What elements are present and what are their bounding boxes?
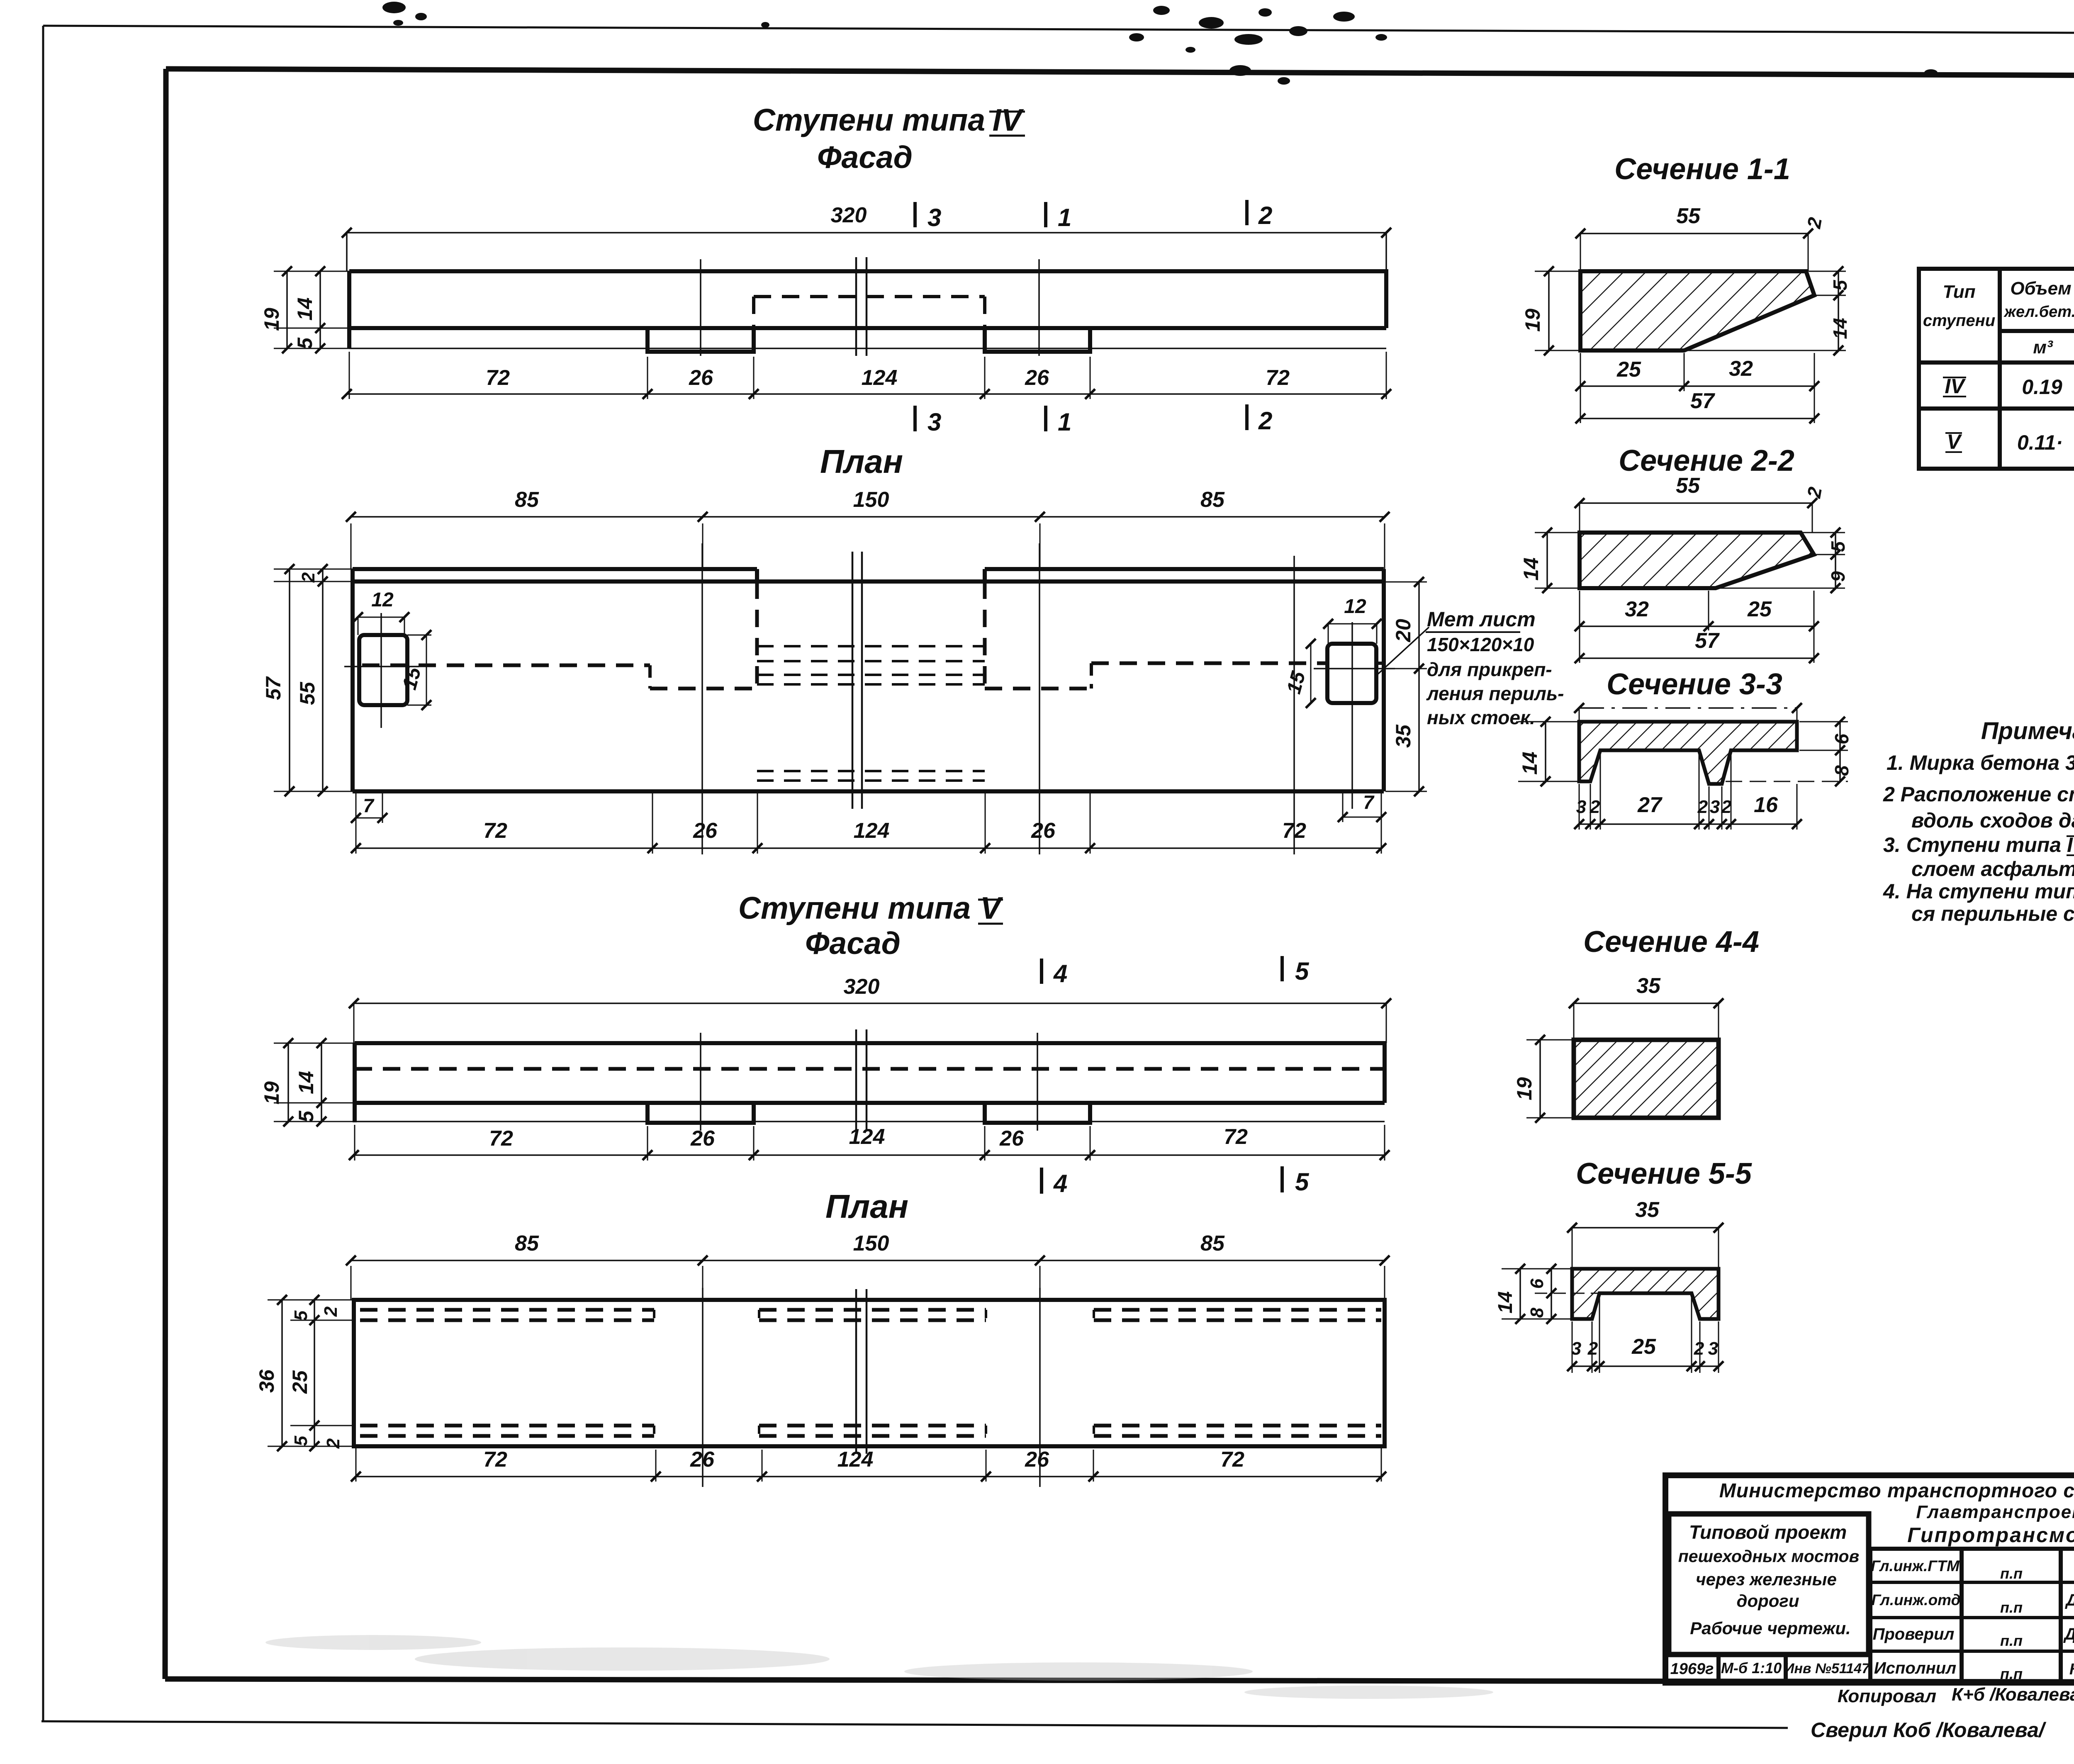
facade V: hidden dashed line [355,1067,1385,1071]
facade V: outline [355,1043,1385,1123]
section 3-3: right dims 6 8 [1799,721,1848,723]
svg-text:2: 2 [1258,407,1272,435]
svg-text:п.п: п.п [2000,1665,2023,1682]
svg-text:3: 3 [927,408,941,436]
facade IV: left dims 19 14 5 [274,271,351,272]
title block: middle signature table [1868,1549,1872,1683]
svg-text:5: 5 [291,1436,311,1446]
svg-text:3: 3 [1571,1338,1581,1359]
svg-text:Объем: Объем [2010,278,2071,299]
plan V: dashed hidden lines bottom [360,1424,654,1428]
svg-text:85: 85 [515,488,539,512]
svg-text:57: 57 [262,676,285,700]
svg-text:для прикреп-: для прикреп- [1427,659,1552,680]
svg-text:5: 5 [1829,280,1851,291]
svg-text:8: 8 [1527,1307,1547,1318]
facade IV: section marks top 3 1 2 [913,202,917,227]
svg-text:72: 72 [1224,1125,1248,1149]
plan IV: hidden step outline dashed left [362,664,650,667]
svg-text:п.п: п.п [2000,1565,2023,1582]
svg-text:55: 55 [1676,204,1701,228]
facade V: section marks top 4 5 [1040,959,1043,984]
svg-text:7: 7 [363,795,375,816]
section 2-2: right dims 5 9 [1802,532,1845,533]
section 1-1: bottom dims 25 32 [1580,353,1581,423]
svg-text:14: 14 [293,297,316,321]
svg-text:36: 36 [255,1369,278,1393]
svg-text:124: 124 [849,1125,885,1149]
svg-text:5: 5 [293,337,316,349]
svg-text:20: 20 [1392,619,1415,642]
plan V: top dimension line 85 150 85 [351,1266,352,1300]
svg-text:25: 25 [288,1370,312,1394]
svg-text:150: 150 [853,1231,889,1255]
svg-text:124: 124 [837,1448,874,1472]
svg-text:Типовой проект: Типовой проект [1689,1521,1847,1543]
section 2-2: bottom dim 57 [1580,657,1814,659]
svg-text:26: 26 [689,366,713,390]
section 2-2: dim 55 and 2 [1580,502,1812,504]
svg-text:25: 25 [1616,358,1641,382]
svg-text:5: 5 [295,1110,318,1122]
title block outer box [1665,1475,2074,1683]
svg-text:3: 3 [1576,797,1586,817]
svg-text:2: 2 [1697,797,1708,817]
facade IV: hidden dashed rectangle (raised middle) [754,295,985,298]
svg-text:Дорофеев: Дорофеев [2063,1625,2074,1643]
svg-text:26: 26 [1025,366,1049,390]
svg-text:9: 9 [1827,571,1849,582]
svg-text:72: 72 [1266,366,1290,390]
svg-text:124: 124 [854,819,890,843]
plan IV: left plate dim 12 [358,617,404,618]
section 5-5: hatched profile [1572,1269,1719,1319]
svg-text:Примечания:: Примечания: [1981,718,2074,745]
svg-text:85: 85 [1200,1231,1225,1255]
svg-text:2: 2 [298,572,319,583]
svg-text:через железные: через железные [1696,1569,1837,1589]
plan IV: met list leader line [1378,627,1429,674]
facade IV: outline [349,271,1386,352]
svg-text:6: 6 [1831,734,1852,745]
svg-text:жел.бет.: жел.бет. [2003,303,2074,321]
svg-text:5: 5 [1827,541,1849,552]
svg-text:320: 320 [844,975,880,999]
svg-text:12: 12 [371,589,394,611]
svg-text:25: 25 [1747,597,1772,621]
facade IV: top dimension line 320 [347,232,1386,234]
svg-text:26: 26 [1031,819,1056,843]
facade V: thin bottom line [355,1121,1385,1122]
svg-text:6: 6 [1527,1278,1547,1289]
facade IV: bottom dimension line 72 26 124 26 72 [349,352,350,399]
title block: left bottom cells [1665,1652,1869,1657]
plan IV: left metal plate [359,635,407,705]
plan V: axis lines [702,1288,704,1487]
section 3-3: bottom dims 3 2 27 2 3 2 16 [1579,784,1580,830]
section 3-3: left dim 14 [1518,721,1580,723]
svg-text:Рабочие чертежи.: Рабочие чертежи. [1690,1618,1850,1638]
facade V: section marks bottom 4 5 [1040,1168,1043,1194]
svg-text:57: 57 [1695,629,1720,653]
svg-text:25: 25 [1631,1335,1656,1359]
plan IV: outline [353,569,1384,791]
svg-text:Фасад: Фасад [817,140,913,175]
svg-text:1: 1 [1058,204,1071,231]
plan IV: right plate dim 12 [1328,623,1377,625]
svg-text:План: План [825,1188,908,1225]
svg-text:124: 124 [862,366,898,390]
plan IV: top dimension line 85 150 85 [351,523,352,569]
svg-text:Инв №51147: Инв №51147 [1784,1661,1870,1676]
svg-text:п.п: п.п [2000,1599,2023,1616]
svg-text:М-б 1:10: М-б 1:10 [1721,1659,1782,1676]
svg-text:85: 85 [515,1231,539,1255]
facade IV: break lines [855,257,857,356]
section 2-2: hatched profile [1580,533,1814,588]
svg-text:2 Расположение ступеней по: 2 Расположение ступеней по типам [1883,783,2074,806]
section 3-3: hatched profile [1579,722,1797,784]
svg-text:2: 2 [323,1438,343,1449]
svg-text:35: 35 [1636,974,1661,998]
svg-text:Ступени типа: Ступени типа [738,891,971,925]
svg-text:Сечение 3-3: Сечение 3-3 [1607,668,1782,701]
svg-text:26: 26 [693,819,718,843]
svg-text:8: 8 [1831,765,1852,776]
section 5-5: dim 35 [1572,1227,1719,1229]
plan IV: break lines [852,552,854,809]
svg-text:ных стоек.: ных стоек. [1427,707,1535,728]
facade V: left dims 19 14 5 [274,1043,356,1044]
svg-text:Министерство транспортного: Министерство транспортного строительства… [1719,1480,2074,1502]
svg-text:2: 2 [1694,1338,1704,1359]
scan noise specks top [382,2,2074,179]
svg-text:320: 320 [831,203,867,227]
svg-text:19: 19 [260,308,283,331]
table: weights [1919,269,2074,469]
svg-text:19: 19 [260,1081,283,1105]
facade V: break lines [855,1029,857,1131]
plan V: left dims 36 25 5 2 5 2 [268,1299,356,1301]
section 5-5: bottom dims 3 2 25 2 3 [1572,1321,1573,1373]
svg-text:4. На ступени типа IV уста: 4. На ступени типа IV устанавливают- [1883,880,2074,903]
svg-text:55: 55 [296,681,319,705]
svg-text:Проверил: Проверил [1873,1625,1955,1643]
svg-text:150×120×10: 150×120×10 [1427,634,1534,655]
plan IV: hidden step outline dashed right [1091,662,1326,665]
facade IV: thin bottom layer line [349,348,1386,349]
section 3-3: top reference line [1579,707,1797,709]
svg-text:72: 72 [486,366,510,390]
svg-text:72: 72 [483,1448,507,1472]
svg-text:14: 14 [1829,318,1851,339]
svg-text:26: 26 [690,1448,715,1472]
svg-text:пешеходных мостов: пешеходных мостов [1678,1547,1860,1566]
svg-text:7: 7 [1363,791,1375,813]
plan IV: right dims 20 35 [1385,582,1427,583]
svg-text:3: 3 [1710,797,1720,817]
svg-text:Гл.инж.отд: Гл.инж.отд [1872,1591,1961,1608]
svg-text:ления периль-: ления периль- [1426,683,1564,704]
svg-text:Гл.инж.ГТМ: Гл.инж.ГТМ [1871,1557,1960,1574]
svg-text:Сечение 4-4: Сечение 4-4 [1583,925,1759,959]
plan V: bottom dimension line [355,1448,357,1482]
svg-text:26: 26 [690,1127,715,1151]
svg-text:Сечение 1-1: Сечение 1-1 [1614,153,1790,186]
section 4-4: left dim 19 [1526,1039,1575,1041]
plan IV: right plate dim 15 [1310,644,1312,703]
section 1-1: hatched profile [1580,271,1814,350]
svg-text:К+б /Ковалева/: К+б /Ковалева/ [1952,1684,2074,1705]
svg-text:ся перильные стойки.: ся перильные стойки. [1911,902,2074,925]
svg-text:Фасад: Фасад [805,926,901,961]
svg-text:72: 72 [483,819,507,843]
svg-text:1. Мирка бетона 300: Мрз 30: 1. Мирка бетона 300: Мрз 300. [1887,751,2074,774]
plan V: dashed hidden lines top [360,1308,654,1312]
plan IV: right metal plate [1327,644,1376,703]
plan IV: bottom dimension line 72 26 124 26 72 [355,793,357,854]
svg-text:дороги: дороги [1737,1591,1799,1611]
svg-text:Мет лист: Мет лист [1427,608,1536,631]
svg-text:Сечение 5-5: Сечение 5-5 [1576,1157,1752,1190]
svg-text:72: 72 [1220,1448,1244,1472]
plan IV: axis lines [701,543,703,854]
section 1-1: left dim 19 [1535,271,1581,272]
svg-text:0.19: 0.19 [2022,375,2062,399]
svg-text:4: 4 [1053,1170,1067,1197]
svg-text:3. Ступени типа IV и V пок: 3. Ступени типа IV и V покрываются [1883,833,2074,856]
svg-text:35: 35 [1392,724,1415,748]
svg-text:Сверил Коб /Ковалева/: Сверил Коб /Ковалева/ [1811,1718,2047,1742]
section 1-1: dim 55 and 2 [1580,233,1808,234]
facade V: notch axis lines [700,1033,701,1131]
title block: left project box [1669,1514,1869,1655]
section 4-4: dim 35 [1574,1002,1719,1004]
svg-text:м³: м³ [2033,337,2053,358]
section 2-2: bottom dims 32 25 [1579,591,1580,663]
svg-text:Копировал: Копировал [1838,1686,1936,1706]
svg-text:Тип: Тип [1943,282,1976,302]
svg-text:26: 26 [999,1127,1024,1151]
svg-text:1969г: 1969г [1670,1660,1714,1678]
section 1-1: right dims 5 14 [1809,271,1846,272]
svg-text:5: 5 [1295,957,1310,985]
facade V: top dimension line 320 [354,1002,1386,1004]
section 4-4: hatched rectangle [1574,1040,1719,1118]
svg-text:Ступени типа: Ступени типа [753,102,985,137]
svg-text:слоем асфальта толщиною 2: слоем асфальта толщиною 2 см. [1911,857,2074,881]
svg-text:Сечение 2-2: Сечение 2-2 [1619,444,1794,477]
svg-text:72: 72 [1282,819,1306,843]
svg-text:0.11·: 0.11· [2017,431,2063,454]
svg-text:2: 2 [1721,797,1732,817]
svg-text:35: 35 [1635,1198,1660,1222]
svg-text:ступени: ступени [1923,311,1995,330]
svg-text:16: 16 [1754,793,1778,817]
facade IV: section marks bottom 3 1 2 [913,406,917,431]
plan V: outline [354,1300,1385,1446]
svg-text:5: 5 [1295,1168,1310,1196]
svg-text:1: 1 [1058,408,1071,436]
svg-text:57: 57 [1690,389,1715,413]
svg-text:27: 27 [1637,793,1663,817]
facade IV: notch axis lines [700,259,701,356]
plan V: break lines [855,1289,857,1454]
svg-text:вдоль сходов дано на лист: вдоль сходов дано на листе №19-ик. [1911,809,2074,832]
svg-text:85: 85 [1200,488,1225,512]
svg-text:Исполнил: Исполнил [1874,1659,1956,1677]
svg-text:2: 2 [321,1306,341,1317]
svg-text:Куранчева: Куранчева [2069,1661,2074,1678]
svg-text:32: 32 [1625,597,1649,621]
svg-text:14: 14 [1518,752,1541,775]
svg-text:Дорофеев: Дорофеев [2065,1591,2074,1609]
svg-text:V: V [980,891,1003,925]
svg-text:12: 12 [1344,596,1366,618]
svg-text:4: 4 [1053,960,1067,988]
roman numeral bars in notes [2067,836,2074,1605]
svg-text:55: 55 [1676,474,1700,498]
svg-text:2: 2 [1258,202,1272,229]
plan IV: middle zone rib dashed lines [757,645,985,647]
svg-text:32: 32 [1729,357,1753,381]
svg-text:150: 150 [853,488,889,512]
svg-text:IV: IV [993,102,1025,137]
faint scan smudges [265,1635,1493,1699]
svg-text:2: 2 [1590,797,1600,817]
svg-text:14: 14 [1519,557,1543,581]
plan IV: left plate dim 15 [426,635,427,705]
svg-text:Гипротрансмост: Гипротрансмост [1907,1523,2074,1547]
svg-text:План: План [820,443,903,480]
svg-text:2: 2 [1587,1338,1598,1359]
svg-text:Главтранспроект: Главтранспроект [1916,1502,2074,1522]
section 5-5: left dims 14 6 8 [1502,1268,1572,1270]
svg-text:п.п: п.п [2000,1632,2023,1649]
svg-text:5: 5 [291,1310,311,1321]
svg-text:14: 14 [295,1071,318,1094]
svg-text:14: 14 [1495,1291,1517,1313]
section 2-2: left dim 14 [1535,532,1580,533]
svg-text:72: 72 [489,1127,513,1151]
section 1-1: bottom dim 57 [1580,418,1814,419]
svg-text:26: 26 [1025,1448,1049,1472]
svg-text:3: 3 [1708,1338,1718,1359]
svg-text:19: 19 [1513,1077,1536,1100]
svg-text:19: 19 [1521,309,1544,332]
svg-text:3: 3 [927,204,941,231]
plan IV: left dims 57 55 2 [274,569,353,570]
facade V: bottom dimension line [354,1125,355,1161]
